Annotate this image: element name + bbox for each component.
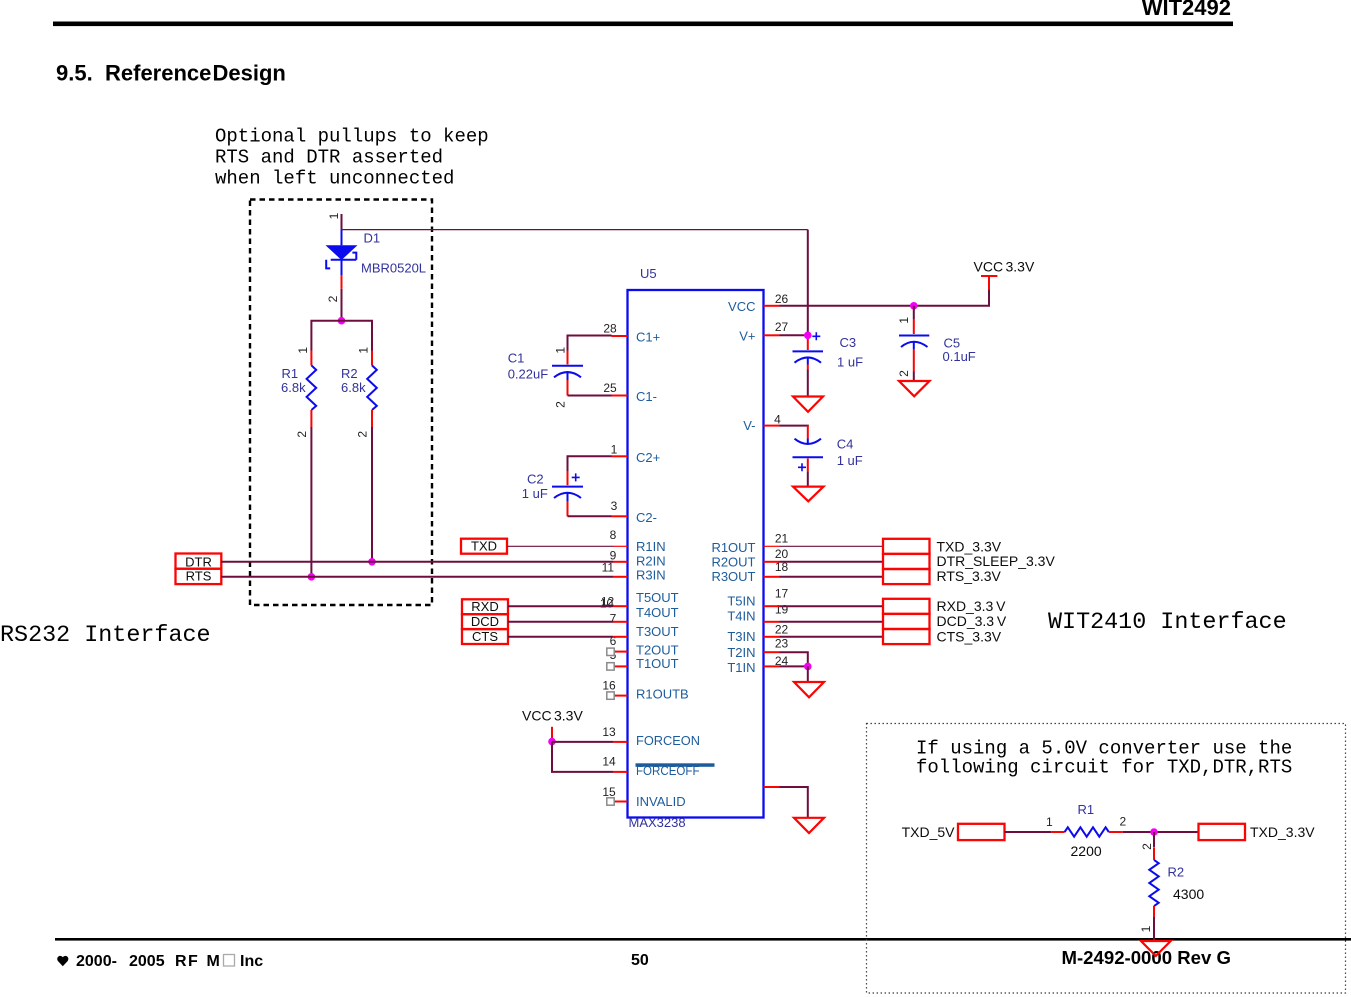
port DCD xyxy=(462,614,508,629)
wire R1 to junction and TXD_3.3V xyxy=(1123,831,1199,833)
svg-text:Optional pullups to keep: Optional pullups to keep xyxy=(215,126,489,148)
svg-text:2: 2 xyxy=(1140,843,1154,850)
svg-text:T3OUT: T3OUT xyxy=(636,624,679,639)
svg-text:3.3V: 3.3V xyxy=(1006,259,1035,275)
wire C4 to ground xyxy=(807,472,809,486)
svg-text:6.8k: 6.8k xyxy=(281,380,306,395)
svg-text:V-: V- xyxy=(743,418,755,433)
svg-text:R: R xyxy=(175,953,187,970)
svg-text:RTS_3.3V: RTS_3.3V xyxy=(937,568,1002,584)
svg-text:R1IN: R1IN xyxy=(636,539,666,554)
C5 value 0.1uF xyxy=(943,349,976,364)
svg-text:1: 1 xyxy=(897,317,911,324)
svg-text:19: 19 xyxy=(775,603,789,617)
svg-text:1: 1 xyxy=(296,347,310,354)
D1 reference label xyxy=(364,231,381,246)
svg-text:MAX3238: MAX3238 xyxy=(629,815,686,830)
svg-text:13: 13 xyxy=(602,725,616,739)
svg-text:VCC: VCC xyxy=(728,299,755,314)
R2 pin1 number (converter) xyxy=(1139,925,1153,932)
wire T4IN to DCD_3.3V port xyxy=(780,621,884,623)
wire RXD to T4OUT xyxy=(508,605,613,607)
wire VCC to FORCEON pin13 xyxy=(552,741,613,743)
port RXD xyxy=(462,599,508,614)
svg-text:T5OUT: T5OUT xyxy=(636,590,679,605)
C2 value 1 uF xyxy=(522,486,548,501)
port CTS xyxy=(462,629,508,644)
label WIT2410 Interface xyxy=(1048,610,1287,636)
svg-text:2200: 2200 xyxy=(1071,843,1102,859)
net label CTS_3.3V xyxy=(937,628,1002,644)
svg-text:M-2492-0000 Rev G: M-2492-0000 Rev G xyxy=(1061,947,1231,968)
junction node R2-DTR xyxy=(368,558,376,566)
svg-text:1: 1 xyxy=(1046,815,1053,829)
R1 reference label xyxy=(282,366,299,381)
svg-text:2: 2 xyxy=(553,401,567,408)
VCC 3.3V net label at FORCEON xyxy=(522,708,583,724)
svg-text:2: 2 xyxy=(326,295,340,302)
U5 left pin names xyxy=(636,330,700,809)
dashed enclosure box for optional pullups xyxy=(250,200,432,606)
port TXD xyxy=(461,539,507,554)
svg-text:RTS and DTR asserted: RTS and DTR asserted xyxy=(215,147,443,169)
net label DCD_3.3V xyxy=(937,613,1007,629)
C5 reference label xyxy=(944,335,961,350)
D1 pin2 number xyxy=(326,295,340,302)
svg-text:R1: R1 xyxy=(1078,802,1095,817)
svg-text:26: 26 xyxy=(775,292,789,306)
wire GND pin to ground xyxy=(780,787,808,818)
port box DTR_SLEEP_3.3V xyxy=(883,554,930,569)
svg-text:C2-: C2- xyxy=(636,510,657,525)
svg-text:1 uF: 1 uF xyxy=(522,486,548,501)
svg-text:M: M xyxy=(207,953,220,970)
R2 value 6.8k xyxy=(341,380,366,395)
svg-text:Design: Design xyxy=(213,61,286,86)
converter resistor R2 xyxy=(1149,847,1158,917)
U5 right pin names xyxy=(711,299,755,675)
C2 bottom wire xyxy=(568,515,612,517)
wire T2IN to ground xyxy=(780,652,808,666)
svg-text:27: 27 xyxy=(775,320,789,334)
svg-text:1 uF: 1 uF xyxy=(837,355,863,370)
C1 bottom wire xyxy=(568,395,612,397)
wire C5 to ground xyxy=(913,372,915,381)
ground at U5 bottom xyxy=(794,818,824,833)
svg-text:DCD: DCD xyxy=(471,614,499,629)
VCC 3.3V power stub at FORCEON xyxy=(551,727,553,742)
ground below C4 xyxy=(793,487,824,502)
svg-text:Reference: Reference xyxy=(105,61,211,86)
header rule xyxy=(53,22,1233,27)
VCC 3.3V power symbol top right xyxy=(981,276,997,289)
op-amp/IC U5 MAX3238 body xyxy=(628,290,764,818)
port box RTS_3.3V xyxy=(883,569,930,584)
C3 reference label xyxy=(840,335,857,350)
wire T1IN to ground junction xyxy=(780,665,808,667)
net label TXD_3.3V (converter) xyxy=(1250,824,1315,840)
svg-text:R1OUTB: R1OUTB xyxy=(636,687,689,702)
svg-text:2: 2 xyxy=(897,370,911,377)
ground below R2 xyxy=(1141,941,1171,956)
svg-text:D1: D1 xyxy=(364,231,381,246)
svg-text:RTS: RTS xyxy=(186,569,212,584)
svg-text:1: 1 xyxy=(356,347,370,354)
D1 pin2 wire xyxy=(341,289,343,321)
R2 value 4300 xyxy=(1173,886,1204,902)
junction node R1-RTS xyxy=(308,573,316,581)
svg-text:8: 8 xyxy=(610,528,617,542)
diode D1 symbol xyxy=(326,230,358,275)
svg-text:28: 28 xyxy=(603,321,617,335)
svg-text:TXD: TXD xyxy=(471,539,497,554)
svg-text:7: 7 xyxy=(610,612,617,626)
svg-text:R1: R1 xyxy=(282,366,299,381)
svg-text:4: 4 xyxy=(774,412,781,426)
R2 reference label (converter) xyxy=(1168,864,1185,879)
converter port box TXD_3.3V xyxy=(1199,824,1246,840)
svg-text:3.3V: 3.3V xyxy=(554,708,583,724)
D1 pin1 number xyxy=(327,212,341,219)
C3 value 1 uF xyxy=(837,355,863,370)
U5 left pin stubs xyxy=(612,336,628,802)
svg-text:T2IN: T2IN xyxy=(727,645,755,660)
junction node T1IN-T2IN xyxy=(804,663,812,671)
wire CTS to T2OUT xyxy=(508,636,613,638)
note text optional pullups xyxy=(215,126,489,190)
svg-text:1: 1 xyxy=(553,347,567,354)
svg-text:3: 3 xyxy=(611,499,618,513)
R1 pin numbers (converter) xyxy=(1046,814,1127,829)
capacitor C1 top wire xyxy=(568,336,612,351)
wire C5 branch xyxy=(913,306,915,319)
wire R1 bottom to RTS net xyxy=(310,427,312,577)
U5 right pin numbers xyxy=(774,292,788,668)
svg-text:21: 21 xyxy=(775,531,789,545)
net label DTR_SLEEP_3.3V xyxy=(937,553,1056,569)
wire VCC to FORCEOFF pin14 xyxy=(552,742,613,772)
capacitor C4 (flipped polarized) xyxy=(793,426,824,472)
capacitor C1 xyxy=(552,351,583,396)
svg-text:1 uF: 1 uF xyxy=(837,453,863,468)
svg-text:RS232 Interface: RS232 Interface xyxy=(0,623,211,649)
wire VCC pin26 to VCC symbol xyxy=(780,289,990,305)
ground below T1IN xyxy=(794,682,824,697)
converter port box TXD_5V xyxy=(958,824,1005,840)
capacitor C3 xyxy=(793,339,824,370)
wire R2OUT to DTR_SLEEP_3.3V port xyxy=(780,561,884,563)
svg-text:R2OUT: R2OUT xyxy=(711,555,755,570)
junction node V+ C3 xyxy=(804,332,812,340)
C4 value 1 uF xyxy=(837,453,863,468)
svg-text:R2: R2 xyxy=(341,366,358,381)
port box DCD_3.3V xyxy=(883,614,930,629)
svg-text:0.22uF: 0.22uF xyxy=(508,367,549,382)
wire from D1 anode to V+ rail (horizontal) xyxy=(342,229,808,231)
wire C3 to ground xyxy=(807,370,809,397)
note text 5.0V converter xyxy=(916,738,1292,779)
wire junction down to R2 xyxy=(1153,832,1155,847)
svg-text:R3IN: R3IN xyxy=(636,568,666,583)
C1 reference label xyxy=(508,351,525,366)
R2 pin2 number (converter) xyxy=(1140,843,1154,850)
svg-text:DTR_SLEEP_3.3V: DTR_SLEEP_3.3V xyxy=(937,553,1056,569)
ground below C3 xyxy=(793,397,823,412)
wire DCD to T3OUT xyxy=(508,621,613,623)
svg-text:T1IN: T1IN xyxy=(727,660,755,675)
wire RTS to R3IN xyxy=(221,576,613,578)
svg-text:15: 15 xyxy=(602,785,616,799)
VCC 3.3V net label top right xyxy=(974,259,1035,275)
svg-text:TXD_5V: TXD_5V xyxy=(902,824,956,840)
svg-text:following circuit for TXD,DTR,: following circuit for TXD,DTR,RTS xyxy=(916,757,1292,779)
svg-text:4300: 4300 xyxy=(1173,886,1204,902)
port box RXD_3.3V xyxy=(883,599,930,614)
svg-text:2: 2 xyxy=(295,431,309,438)
R1 value 6.8k xyxy=(281,380,306,395)
converter resistor R1 xyxy=(1051,827,1123,836)
svg-text:FORCEON: FORCEON xyxy=(636,733,700,748)
C1 value 0.22uF xyxy=(508,367,549,382)
capacitor C5 xyxy=(899,319,929,372)
footer rule xyxy=(55,938,1351,941)
svg-text:R2: R2 xyxy=(1168,864,1185,879)
svg-text:2: 2 xyxy=(1120,814,1127,828)
svg-text:20: 20 xyxy=(775,547,789,561)
svg-text:14: 14 xyxy=(602,755,616,769)
junction node C5 tap xyxy=(910,302,918,310)
ground below C5 xyxy=(899,381,930,396)
svg-text:9.5.: 9.5. xyxy=(56,61,93,86)
capacitor C2 top wire xyxy=(568,456,612,471)
svg-text:R3OUT: R3OUT xyxy=(711,569,755,584)
svg-text:Inc: Inc xyxy=(240,953,263,970)
U5 reference label xyxy=(640,266,657,281)
page title WIT2492 xyxy=(1142,0,1231,20)
junction node R1-R2 xyxy=(1150,828,1158,836)
C4 reference label xyxy=(837,436,854,451)
net label RXD_3.3V xyxy=(937,598,1007,614)
svg-text:INVALID: INVALID xyxy=(636,794,686,809)
net label TXD_5V xyxy=(902,824,956,840)
footer page number xyxy=(631,952,649,969)
svg-text:23: 23 xyxy=(775,637,789,651)
svg-text:C2+: C2+ xyxy=(636,450,660,465)
svg-text:C2: C2 xyxy=(527,472,544,487)
svg-text:CTS: CTS xyxy=(472,629,498,644)
wire R3OUT to RTS_3.3V port xyxy=(780,576,884,578)
svg-text:R2IN: R2IN xyxy=(636,554,666,569)
svg-text:RXD: RXD xyxy=(471,599,498,614)
svg-text:22: 22 xyxy=(775,623,789,637)
svg-text:C1-: C1- xyxy=(636,389,657,404)
svg-text:WIT2492: WIT2492 xyxy=(1142,0,1231,20)
svg-text:C4: C4 xyxy=(837,436,854,451)
svg-text:2005: 2005 xyxy=(129,953,165,970)
label RS232 Interface xyxy=(0,623,211,649)
svg-text:1: 1 xyxy=(1139,925,1153,932)
svg-text:R1OUT: R1OUT xyxy=(711,540,755,555)
U5 left pin numbers xyxy=(600,321,618,799)
svg-text:RXD_3.3 V: RXD_3.3 V xyxy=(937,598,1007,614)
net label RTS_3.3V xyxy=(937,568,1002,584)
R1 reference label (converter) xyxy=(1078,802,1095,817)
wire T5IN to RXD_3.3V port xyxy=(780,605,884,607)
svg-text:25: 25 xyxy=(603,381,617,395)
svg-text:VCC: VCC xyxy=(522,708,552,724)
svg-text:50: 50 xyxy=(631,952,649,969)
svg-text:16: 16 xyxy=(602,679,616,693)
R1 value 2200 xyxy=(1071,843,1102,859)
junction node VCC-FORCEON xyxy=(548,738,556,746)
svg-text:V+: V+ xyxy=(739,329,755,344)
MAX3238 value label xyxy=(629,815,686,830)
D1 value label MBR0520L xyxy=(361,261,426,276)
footer doc number xyxy=(1061,947,1231,968)
wire DTR to R2IN xyxy=(221,561,613,563)
unconnected pin squares T2OUT T1OUT R1OUTB INVALID xyxy=(607,648,614,805)
svg-text:6.8k: 6.8k xyxy=(341,380,366,395)
C2 reference label xyxy=(527,472,544,487)
svg-text:TXD_3.3V: TXD_3.3V xyxy=(937,538,1002,554)
wire R2 to ground xyxy=(1153,917,1155,941)
svg-text:T3IN: T3IN xyxy=(727,629,755,644)
resistor R1 xyxy=(307,351,317,428)
section heading 9.5 Reference Design xyxy=(56,61,286,86)
svg-text:DTR: DTR xyxy=(185,554,212,569)
port DTR xyxy=(176,554,222,570)
dotted enclosure box for converter circuit xyxy=(867,724,1346,994)
port box TXD_3.3V xyxy=(883,539,930,554)
C1 pin numbers xyxy=(553,347,567,408)
svg-text:T4OUT: T4OUT xyxy=(636,605,679,620)
footer copyright text xyxy=(57,953,263,970)
port RTS xyxy=(176,569,222,584)
svg-text:VCC: VCC xyxy=(974,259,1004,275)
capacitor C2 xyxy=(552,471,583,516)
R2 pin numbers xyxy=(355,347,370,438)
wire TXD_5V to R1 xyxy=(1005,831,1052,833)
svg-text:T1OUT: T1OUT xyxy=(636,656,679,671)
svg-text:2000-: 2000- xyxy=(76,953,117,970)
R2 reference label xyxy=(341,366,358,381)
wire junction down to ground xyxy=(807,666,809,681)
wire V- pin4 to C4 xyxy=(780,425,808,428)
svg-text:1: 1 xyxy=(327,212,341,219)
C3 plus sign xyxy=(812,332,820,340)
wire horizontal to R1 and R2 tops xyxy=(311,321,372,351)
svg-text:C1: C1 xyxy=(508,351,525,366)
C5 pin numbers xyxy=(897,317,911,377)
svg-text:2: 2 xyxy=(355,431,369,438)
wire R1OUT to TXD_3.3V port xyxy=(780,545,884,547)
wire R2 bottom to DTR net xyxy=(371,427,373,562)
svg-text:C3: C3 xyxy=(840,335,857,350)
svg-text:U5: U5 xyxy=(640,266,657,281)
svg-text:C1+: C1+ xyxy=(636,330,660,345)
svg-text:1: 1 xyxy=(611,443,618,457)
resistor R2 xyxy=(367,351,377,428)
D1 pin2 red segment xyxy=(341,275,343,289)
svg-text:TXD_3.3V: TXD_3.3V xyxy=(1250,824,1315,840)
wire T3IN to CTS_3.3V port xyxy=(780,636,884,638)
junction node below D1 xyxy=(338,317,346,325)
svg-text:17: 17 xyxy=(775,587,789,601)
wire vertical down to V+ junction xyxy=(807,230,809,336)
svg-text:when left unconnected: when left unconnected xyxy=(215,168,454,190)
port box CTS_3.3V xyxy=(883,629,930,644)
svg-text:T5IN: T5IN xyxy=(727,594,755,609)
net label TXD_3.3V xyxy=(937,538,1002,554)
svg-text:WIT2410 Interface: WIT2410 Interface xyxy=(1048,610,1287,636)
svg-text:MBR0520L: MBR0520L xyxy=(361,261,426,276)
svg-text:10: 10 xyxy=(600,597,614,611)
svg-text:F: F xyxy=(188,953,198,970)
svg-text:0.1uF: 0.1uF xyxy=(943,349,976,364)
svg-text:CTS_3.3V: CTS_3.3V xyxy=(937,628,1002,644)
FORCEOFF overline xyxy=(636,763,715,767)
U5 right pin stubs xyxy=(764,306,780,787)
wire V+ pin27 to junction xyxy=(780,334,808,336)
svg-text:DCD_3.3 V: DCD_3.3 V xyxy=(937,613,1007,629)
diode D1 pin1 stub wire xyxy=(341,214,343,231)
R1 pin numbers xyxy=(295,347,310,438)
svg-text:T4IN: T4IN xyxy=(727,609,755,624)
wire TXD to R1IN xyxy=(507,545,614,547)
